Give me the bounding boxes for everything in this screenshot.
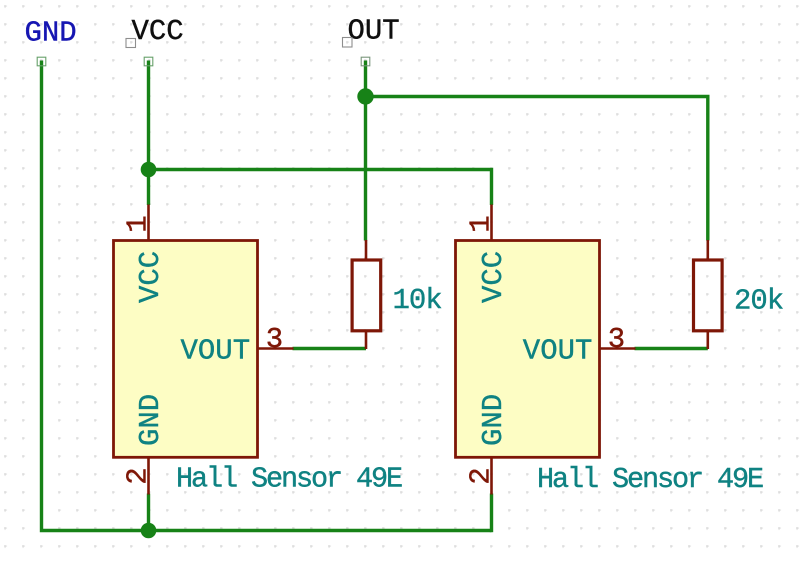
resistor R2 body xyxy=(694,260,723,331)
svg-text:VCC: VCC xyxy=(477,251,510,303)
svg-text:VOUT: VOUT xyxy=(523,335,593,368)
component U1 body xyxy=(114,241,258,458)
U2 pin 2 xyxy=(490,457,493,494)
wire OUT vertical xyxy=(364,61,367,241)
wire VCC distribution horizontal xyxy=(149,170,492,206)
U2 pin 3 xyxy=(600,347,636,350)
junction OUT xyxy=(357,88,373,104)
svg-text:VOUT: VOUT xyxy=(181,335,251,368)
svg-text:3: 3 xyxy=(608,323,625,356)
svg-text:2: 2 xyxy=(465,467,498,484)
svg-text:GND: GND xyxy=(134,394,167,446)
wire pin2 right down xyxy=(490,494,493,533)
junction VCC xyxy=(141,162,157,178)
wire end square VCC xyxy=(144,57,153,66)
svg-text:VCC: VCC xyxy=(134,251,167,303)
U1 pin 2 xyxy=(147,457,150,494)
label anchor square OUT xyxy=(343,38,353,48)
svg-text:VCC: VCC xyxy=(132,15,184,48)
svg-text:Hall Sensor 49E: Hall Sensor 49E xyxy=(176,463,402,496)
wire end square OUT xyxy=(361,57,370,66)
svg-text:1: 1 xyxy=(465,215,498,232)
U1 pin 3 xyxy=(258,347,294,350)
wire VOUT1 to R1 xyxy=(293,347,367,350)
resistor R1 lead top xyxy=(365,240,368,260)
wire pin2 left down xyxy=(147,494,150,531)
U1 pin 1 xyxy=(147,205,150,241)
svg-text:10k: 10k xyxy=(393,284,442,317)
resistor R2 lead bottom xyxy=(706,331,709,349)
svg-text:3: 3 xyxy=(266,323,283,356)
svg-text:GND: GND xyxy=(477,394,510,446)
U2 pin 1 xyxy=(490,205,493,241)
svg-text:20k: 20k xyxy=(734,285,783,318)
wire VOUT2 to R2 xyxy=(635,347,708,350)
resistor R2 lead top xyxy=(706,240,709,260)
junction GND bus xyxy=(141,523,157,539)
wire OUT to 20k horizontal xyxy=(366,97,708,241)
wire VCC vertical xyxy=(147,61,150,206)
svg-text:OUT: OUT xyxy=(348,15,400,48)
component U2 body xyxy=(456,241,600,458)
wire end square GND xyxy=(37,57,46,66)
label anchor square VCC xyxy=(126,39,136,48)
svg-text:2: 2 xyxy=(122,467,155,484)
svg-text:Hall Sensor 49E: Hall Sensor 49E xyxy=(537,463,763,496)
svg-text:GND: GND xyxy=(25,17,77,50)
wire GND vertical xyxy=(42,61,492,531)
resistor R1 lead bottom xyxy=(365,331,368,349)
resistor R1 body xyxy=(352,260,381,331)
svg-text:1: 1 xyxy=(122,215,155,232)
